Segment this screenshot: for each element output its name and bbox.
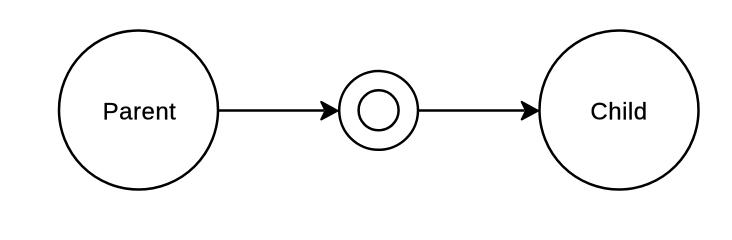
junction double circle (339, 71, 418, 150)
svg-text:Parent: Parent (103, 98, 177, 125)
node Parent (59, 31, 218, 190)
wire arrow junction to Child (418, 102, 538, 120)
wire arrow Parent to junction (218, 102, 337, 120)
svg-text:Child: Child (590, 98, 647, 125)
node Child (540, 31, 699, 190)
